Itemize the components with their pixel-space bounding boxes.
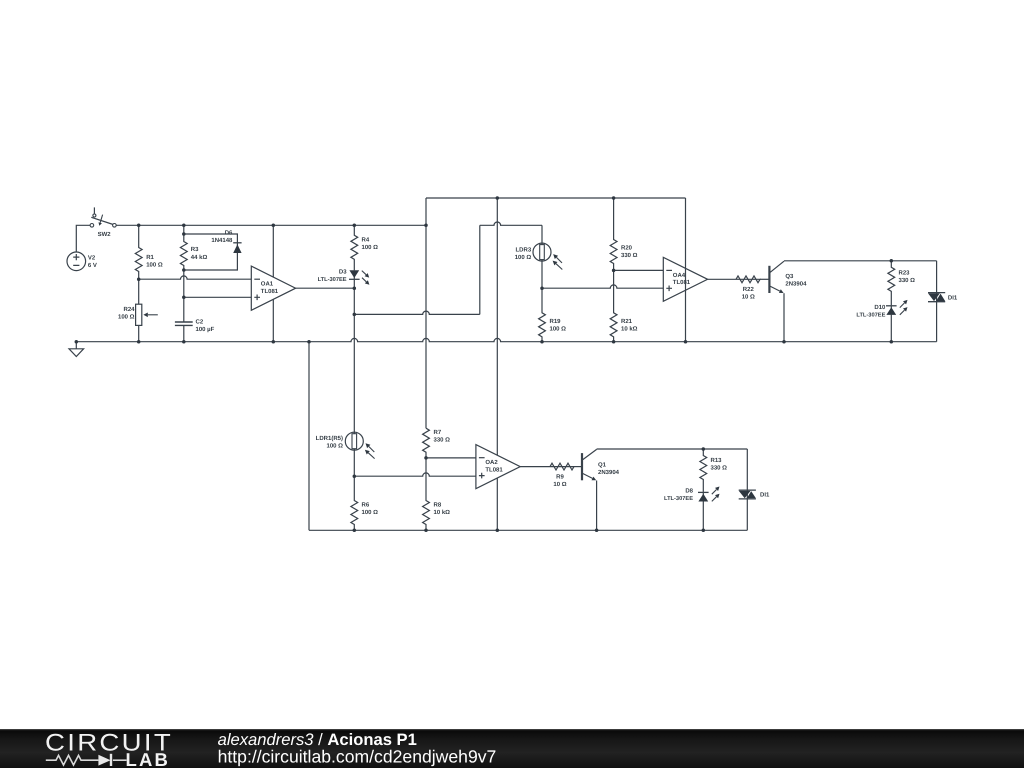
svg-text:D10: D10 <box>874 304 886 311</box>
svg-text:OA1: OA1 <box>261 281 274 288</box>
op-amp OA1 <box>251 266 295 310</box>
resistor R7 <box>423 428 430 458</box>
svg-text:R13: R13 <box>711 457 723 464</box>
svg-text:100 Ω: 100 Ω <box>327 443 344 450</box>
junction rail A / R4 <box>353 224 357 228</box>
junction R20 / R21 / OA4 inverting <box>612 269 616 273</box>
wire rail A vertical through OA1 to ground rail <box>272 225 274 341</box>
resistor R23 <box>888 261 895 306</box>
voltage source V2 <box>67 252 86 271</box>
diac DI1 (lower) <box>739 490 756 499</box>
svg-text:10 Ω: 10 Ω <box>553 481 566 488</box>
svg-text:100 Ω: 100 Ω <box>146 261 163 268</box>
svg-text:D6: D6 <box>225 229 233 236</box>
junction R7 / R8 / OA2 inverting <box>424 456 428 460</box>
wire DI1 branch vertical <box>936 261 938 342</box>
svg-text:OA4: OA4 <box>673 272 686 279</box>
svg-text:330 Ω: 330 Ω <box>434 436 451 443</box>
junction R3 / D6 bottom <box>182 268 186 272</box>
junction OA1 output / D3 <box>353 286 357 290</box>
potentiometer R24 <box>138 279 140 304</box>
svg-text:R23: R23 <box>899 269 911 276</box>
wire net-B vertical (rail B left end down to R7) <box>425 198 427 428</box>
junction ground rail / R21 <box>612 340 616 344</box>
wire Q1 collector rail <box>597 448 748 450</box>
resistor R21 <box>610 270 617 341</box>
junction ground rail / OA4 vertical <box>684 340 688 344</box>
op-amp OA4 <box>663 257 707 301</box>
junction ground rail / R19 <box>540 340 544 344</box>
svg-text:10 Ω: 10 Ω <box>742 293 755 300</box>
svg-text:R1: R1 <box>146 254 154 261</box>
wire LDR1 bottom <box>353 450 355 476</box>
svg-text:100 Ω: 100 Ω <box>515 254 532 261</box>
junction ground rail / sub vertical <box>307 340 311 344</box>
junction C2 / OA1 non-inverting <box>182 296 186 300</box>
svg-text:OA2: OA2 <box>485 459 498 466</box>
wire OA2 output <box>520 466 550 468</box>
svg-text:100 Ω: 100 Ω <box>550 325 567 332</box>
junction R3 / D6 top <box>182 232 186 236</box>
diac DI1 <box>928 293 945 302</box>
svg-text:LTL-307EE: LTL-307EE <box>856 312 885 318</box>
wire R7/R8 node to OA2 inverting input <box>426 457 476 459</box>
junction rail A / OA1 vertical <box>272 224 276 228</box>
svg-text:1N4148: 1N4148 <box>211 237 233 244</box>
footer bar <box>0 729 1024 768</box>
svg-text:R20: R20 <box>621 244 633 251</box>
junction ground rail / R24 <box>137 340 141 344</box>
resistor R6 <box>351 476 358 530</box>
wire V2 to switch SW2 <box>76 225 90 252</box>
svg-text:2N3904: 2N3904 <box>785 281 807 288</box>
wire C2 node to OA1 non-inverting input <box>184 296 252 298</box>
junction sub rail / rail-B vertical <box>496 529 500 533</box>
svg-text:Q3: Q3 <box>785 273 794 280</box>
junction rail B / sub vertical <box>496 196 500 200</box>
wire R3/D6 node down to C2 <box>183 270 185 322</box>
junction D3 branch / feedback <box>353 313 357 317</box>
svg-text:R7: R7 <box>434 429 442 436</box>
junction sub rail / Q1 emitter <box>595 529 599 533</box>
diode D6 <box>184 234 238 270</box>
svg-text:Q1: Q1 <box>598 462 607 469</box>
junction LDR3 / R19 / OA4 non-inverting <box>540 286 544 290</box>
wire rail B <box>426 197 686 199</box>
junction R1 / R24 / OA1 inverting <box>137 277 141 281</box>
junction rail A / net-B vertical <box>424 224 428 228</box>
svg-text:V2: V2 <box>88 255 96 262</box>
wire DI1 lower branch vertical <box>746 449 748 530</box>
junction ground rail / Q3 emitter <box>782 340 786 344</box>
resistor R13 <box>700 449 707 492</box>
junction Q1 collector / R13 <box>702 447 706 451</box>
resistor R9 <box>550 463 574 470</box>
junction sub rail / D8 <box>702 529 706 533</box>
CircuitLab logo resistor-diode mark <box>46 755 127 765</box>
junction rail A / R1 <box>137 224 141 228</box>
svg-text:100 Ω: 100 Ω <box>118 314 135 321</box>
wire R1 node to OA1 inverting input <box>139 276 252 279</box>
wire sub rail <box>309 529 747 531</box>
svg-text:R9: R9 <box>556 474 564 481</box>
junction sub rail / R8 <box>424 529 428 533</box>
junction ground rail / V2 <box>75 340 79 344</box>
wire R20/R21 node to OA4 inverting input <box>614 269 664 271</box>
svg-text:10 kΩ: 10 kΩ <box>621 325 638 332</box>
svg-text:D3: D3 <box>339 269 347 276</box>
wire D3 node down to LDR1 <box>353 288 355 432</box>
svg-text:330 Ω: 330 Ω <box>899 277 916 284</box>
wire LDR3 to OA4 non-inverting input <box>542 285 663 288</box>
svg-text:LDR3: LDR3 <box>516 247 532 254</box>
svg-text:D8: D8 <box>685 487 693 494</box>
svg-text:R8: R8 <box>434 501 442 508</box>
resistor R22 <box>736 276 760 283</box>
junction rail A / R3 <box>182 224 186 228</box>
junction sub rail / R6 <box>353 529 357 533</box>
junction rail B / R20 <box>612 196 616 200</box>
svg-text:R4: R4 <box>362 237 370 244</box>
svg-text:DI1: DI1 <box>948 295 958 302</box>
svg-text:C2: C2 <box>196 319 204 326</box>
LED D10 <box>890 305 892 315</box>
transistor Q1 <box>581 453 583 480</box>
junction Q3 collector / R23 <box>890 259 894 263</box>
svg-text:R3: R3 <box>191 246 199 253</box>
svg-text:6 V: 6 V <box>88 262 97 269</box>
wire OA4 output <box>708 278 736 280</box>
junction LDR1 / R6 / OA2 non-inverting <box>353 474 357 478</box>
svg-text:100 Ω: 100 Ω <box>362 244 379 251</box>
svg-text:http://circuitlab.com/cd2endjw: http://circuitlab.com/cd2endjweh9v7 <box>218 747 497 767</box>
capacitor C2 <box>175 322 193 325</box>
resistor R4 <box>351 225 358 270</box>
LED D3 <box>353 270 355 288</box>
LED D8 <box>702 492 704 502</box>
svg-text:R21: R21 <box>621 318 633 325</box>
resistor R3 <box>180 225 187 270</box>
photoresistor LDR3 <box>533 243 551 261</box>
transistor Q3 <box>768 266 770 293</box>
svg-text:100 Ω: 100 Ω <box>362 509 379 516</box>
svg-text:R22: R22 <box>743 286 755 293</box>
svg-text:TL081: TL081 <box>485 466 503 473</box>
junction ground rail / C2 <box>182 340 186 344</box>
switch SW2 <box>93 207 95 213</box>
photoresistor LDR1(R5) <box>345 432 363 450</box>
svg-text:LTL-307EE: LTL-307EE <box>318 277 347 283</box>
svg-text:330 Ω: 330 Ω <box>711 464 728 471</box>
svg-text:TL081: TL081 <box>673 279 691 286</box>
ground <box>75 342 77 349</box>
resistor R8 <box>423 458 430 530</box>
svg-text:2N3904: 2N3904 <box>598 469 620 476</box>
svg-text:R19: R19 <box>550 318 562 325</box>
svg-text:TL081: TL081 <box>261 288 279 295</box>
svg-text:10 kΩ: 10 kΩ <box>434 509 451 516</box>
svg-text:LTL-307EE: LTL-307EE <box>664 496 693 502</box>
junction ground rail / OA1 vertical <box>272 340 276 344</box>
wire OA1 output to D3 node <box>295 287 354 289</box>
wire feedback loop D3 node to LDR3 top <box>354 311 480 314</box>
wire ground rail <box>76 338 936 341</box>
svg-text:SW2: SW2 <box>98 231 112 238</box>
svg-text:R6: R6 <box>362 501 370 508</box>
wire LDR1 to OA2 non-inverting input <box>354 473 476 476</box>
svg-text:44 kΩ: 44 kΩ <box>191 254 208 261</box>
svg-text:DI1: DI1 <box>760 492 770 499</box>
resistor R19 <box>539 288 546 342</box>
resistor R1 <box>135 225 142 279</box>
wire rail B down to sub rail <box>496 198 498 530</box>
wire LDR3 bottom <box>541 261 543 288</box>
resistor R20 <box>610 198 617 270</box>
wire rail A from SW2 to net-B vertical <box>116 224 426 226</box>
svg-text:LAB: LAB <box>126 749 171 768</box>
svg-text:LDR1(R5): LDR1(R5) <box>316 435 343 442</box>
junction ground rail / D10 <box>890 340 894 344</box>
op-amp OA2 <box>476 445 520 489</box>
wire rail B down through OA4 to ground rail <box>685 198 687 342</box>
svg-text:R24: R24 <box>123 306 135 313</box>
wire Q3 collector rail <box>784 260 937 262</box>
svg-text:100 µF: 100 µF <box>196 326 215 333</box>
svg-text:330 Ω: 330 Ω <box>621 252 638 259</box>
wire ground to sub rail <box>308 342 310 531</box>
